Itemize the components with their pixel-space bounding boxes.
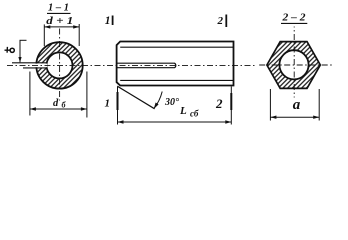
outer circle of bushing section — [36, 42, 82, 88]
hatching of ring section — [34, 42, 83, 88]
svg-text:d: d — [53, 98, 59, 109]
svg-text:d + 1: d + 1 — [46, 15, 73, 27]
svg-text:1: 1 — [105, 15, 111, 27]
inner bore circle — [47, 52, 73, 78]
svg-text:a: a — [293, 97, 301, 113]
vertical centerline of section 1-1 — [59, 29, 61, 101]
horizontal centerline through 1-1 and side view — [7, 64, 256, 66]
30 degree slant line — [117, 86, 154, 109]
dimension line a — [270, 116, 319, 118]
dimension line d+1 — [44, 26, 79, 28]
slot gap white — [34, 64, 47, 68]
dimension line d.b — [30, 108, 87, 110]
top chamfer line — [120, 46, 233, 48]
side view outline — [117, 42, 234, 86]
extension line right of d+1 — [78, 24, 80, 46]
label t — [5, 47, 15, 53]
slot bottom edge — [23, 67, 47, 69]
svg-text:сб: сб — [190, 108, 199, 118]
underline of 1-1 — [47, 12, 71, 14]
svg-text:2: 2 — [217, 15, 224, 27]
extension line right of d.b — [86, 72, 88, 118]
section mark 2 bottom + extension — [230, 87, 232, 125]
hatching of hex section — [267, 42, 320, 89]
angle arc — [154, 92, 162, 109]
L dimension line — [118, 121, 232, 123]
svg-text:L: L — [179, 105, 187, 117]
underline of 2-2 — [281, 22, 307, 24]
svg-text:1: 1 — [105, 98, 111, 110]
svg-text:1 – 1: 1 – 1 — [48, 2, 69, 13]
section mark 1 bottom + extension — [117, 87, 119, 125]
bottom chamfer line — [120, 79, 233, 81]
slot top edge + extension line for t — [12, 62, 47, 64]
vertical centerline of 2-2 — [293, 27, 295, 98]
section mark 1 top — [112, 16, 114, 26]
svg-text:2 – 2: 2 – 2 — [281, 12, 306, 24]
section mark 2 top — [225, 15, 227, 28]
horizontal centerline of 2-2 — [259, 64, 333, 66]
slot in side view — [117, 63, 176, 67]
hex bore circle — [279, 50, 308, 79]
t dimension leader — [19, 40, 21, 62]
extension line right of a — [318, 89, 320, 121]
svg-text:2: 2 — [215, 96, 223, 111]
svg-text:30°: 30° — [164, 97, 179, 108]
extension line left of a — [269, 89, 271, 121]
extension line left of d.b — [29, 72, 31, 116]
extension line left of d+1 — [43, 24, 45, 46]
hexagon outline — [267, 42, 320, 89]
